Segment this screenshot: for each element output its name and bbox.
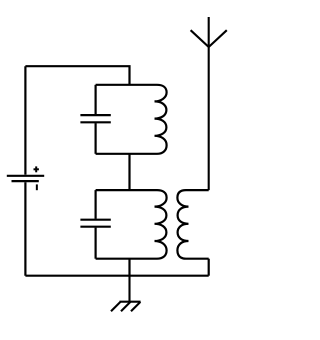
wire: left rail upper (battery top lead) [24, 66, 26, 174]
wire: left rail lower (battery bottom lead) [24, 182, 26, 276]
capacitor C1 [80, 85, 110, 154]
ground [111, 276, 141, 312]
antenna AN1 [191, 17, 227, 190]
inductor L2 (tank 2 coil, transformer primary, with rails) [96, 190, 167, 259]
wire: bottom bus [25, 275, 208, 277]
battery B1 [7, 176, 44, 181]
inductor L1 (tank 1 coil with rails) [96, 85, 167, 154]
battery plus label [34, 166, 39, 172]
wire: stub between tank 1 and tank 2 [128, 154, 130, 190]
wire: top rail from battery to tank 1 [25, 66, 129, 85]
wire: antenna coil bottom drop [208, 259, 210, 276]
wire: stub tank 2 bottom to ground bus [128, 259, 130, 276]
inductor L3 (transformer secondary / antenna coil) [177, 190, 208, 259]
battery minus label [36, 184, 38, 190]
capacitor C2 [80, 190, 110, 259]
